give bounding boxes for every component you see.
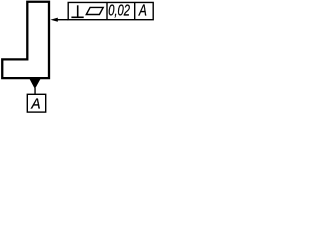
perpendicularity symbol: [71, 5, 83, 17]
svg-text:A: A: [30, 97, 40, 113]
feature control frame box: [68, 2, 153, 19]
datum triangle (filled) on bottom face: [29, 79, 40, 90]
datum leader wire: [34, 88, 36, 94]
frame divider 1: [106, 2, 108, 19]
frame divider 2: [134, 2, 136, 19]
leader wire from frame to part right face: [54, 19, 68, 21]
svg-text:A: A: [138, 3, 147, 20]
part outline (stepped L-shaped block, thick contour): [2, 2, 49, 78]
svg-text:0,02: 0,02: [108, 3, 130, 20]
flatness (parallelogram) symbol: [86, 7, 103, 14]
datum label box: [27, 94, 45, 112]
leader arrowhead: [50, 18, 57, 22]
